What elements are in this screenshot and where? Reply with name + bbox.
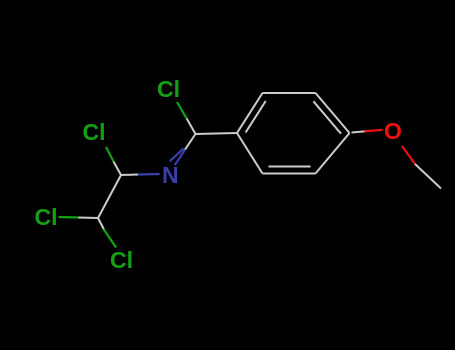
benzene ring edge BR-BL (bottom) — [263, 173, 316, 175]
wire: bond O to CH3 (carbon half) — [415, 164, 441, 189]
wire: bond C1 to Cl2 (green half) — [106, 147, 114, 162]
wire: bond C0 to Cl4 (carbon half) — [98, 218, 105, 231]
svg-text:Cl: Cl — [157, 76, 180, 102]
wire: bond O to CH3 (red half) — [402, 146, 415, 164]
wire: bond ring R to O (carbon half) — [352, 131, 367, 132]
svg-text:Cl: Cl — [35, 204, 58, 230]
benzene ring edge TR-R — [316, 93, 350, 133]
wire: bond Cl3 to C0 (green half) — [59, 216, 79, 219]
benzene inner double-bond line along TR-R — [313, 101, 341, 133]
wire: bond C1 to N (carbon half) — [121, 174, 138, 177]
wire: double bond N=C2 second line (blue, converges to main line) — [170, 148, 184, 161]
wire: bond C0 to Cl4 (green half) — [104, 229, 117, 248]
wire: bond C2 to Cl1 (green half) — [177, 102, 187, 118]
benzene ring edge BL-L — [237, 133, 263, 174]
wire: bond C0 to C1 — [98, 175, 121, 218]
benzene ring edge L-TL — [237, 93, 263, 133]
svg-text:O: O — [384, 118, 402, 144]
benzene inner double-bond line along L-TL — [246, 101, 266, 133]
wire: bond Cl3 to C0 (carbon half) — [79, 217, 99, 220]
svg-text:N: N — [162, 162, 179, 188]
benzene inner double-bond line along BR-BL — [269, 166, 311, 168]
benzene ring edge R-BR — [316, 133, 350, 174]
wire: bond C1 to N (blue half) — [138, 173, 160, 176]
wire: double bond N=C2 main line (blue half) — [175, 150, 185, 166]
svg-text:Cl: Cl — [83, 119, 106, 145]
svg-text:Cl: Cl — [110, 247, 133, 273]
benzene ring edge TL-TR (top) — [263, 92, 316, 94]
wire: double bond N=C2 main line (carbon half) — [185, 134, 196, 150]
wire: bond C2 to Cl1 (carbon half) — [187, 118, 196, 134]
wire: bond ring R to O (red half) — [365, 130, 383, 132]
wire: bond C2 to ring left vertex — [196, 133, 238, 134]
wire: bond C1 to Cl2 (carbon half) — [114, 162, 122, 176]
